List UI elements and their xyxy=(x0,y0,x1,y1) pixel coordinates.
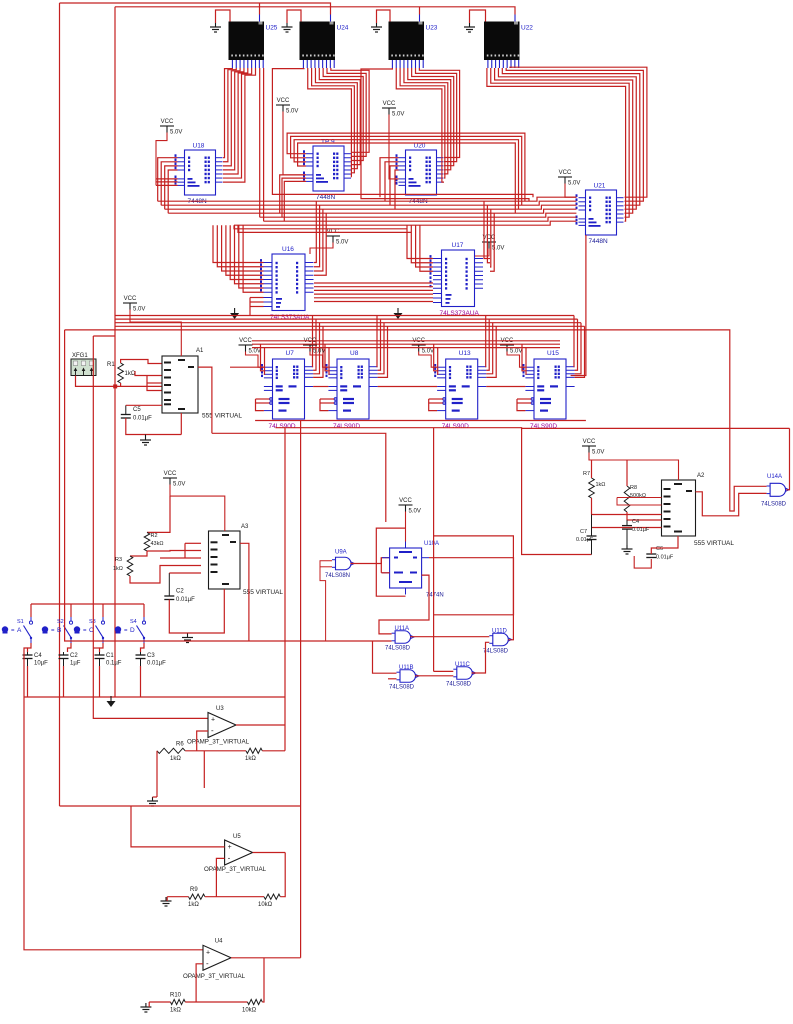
wire bundle display U24 segments to U19 outputs xyxy=(308,68,369,177)
svg-text:5.0V: 5.0V xyxy=(313,349,325,355)
svg-text:R10: R10 xyxy=(170,993,182,999)
svg-text:7448N: 7448N xyxy=(316,194,335,201)
op-amp U3 xyxy=(187,706,250,746)
svg-text:R1: R1 xyxy=(107,362,115,368)
wire R1 top to A1 xyxy=(121,360,162,364)
wire VCC loop to U10A clear pin xyxy=(376,528,405,596)
decade counter U15 xyxy=(523,350,575,430)
resistor R4 feedback of U3 xyxy=(245,748,262,762)
power VCC for U15 xyxy=(500,338,525,367)
ground for display U24 xyxy=(282,10,302,32)
wire display U24 pin A frame wire xyxy=(272,68,533,197)
svg-text:-: - xyxy=(206,959,209,968)
svg-text:43kΩ: 43kΩ xyxy=(151,541,164,547)
wire counter cascade lines xyxy=(230,367,525,386)
BCD decoder U21 xyxy=(576,183,624,246)
svg-text:U24: U24 xyxy=(337,25,349,32)
svg-text:U25: U25 xyxy=(266,25,278,32)
wire U5 minus input xyxy=(216,858,224,896)
svg-text:U22: U22 xyxy=(521,25,533,32)
svg-text:U18: U18 xyxy=(193,143,205,150)
svg-text:S3: S3 xyxy=(89,619,96,625)
svg-text:A1: A1 xyxy=(196,348,204,354)
ground for display U23 xyxy=(371,10,390,32)
wire U11B output to U11C input xyxy=(415,675,453,677)
wire display U23 pin A frame wire xyxy=(361,68,529,201)
svg-text:VCC: VCC xyxy=(583,439,596,445)
svg-text:S4: S4 xyxy=(130,619,137,625)
svg-text:A: A xyxy=(17,627,22,634)
wire bus of decoder input lines xyxy=(158,197,577,225)
wire U3 feedback loop xyxy=(236,725,285,751)
svg-text:XFG1: XFG1 xyxy=(72,353,88,359)
AND gate U11A xyxy=(385,626,414,652)
power VCC for U19 xyxy=(276,98,306,175)
svg-text:C6: C6 xyxy=(656,546,663,552)
wire A3 output to gates xyxy=(240,543,249,641)
resistor R7 1k xyxy=(583,460,605,515)
wire top net branch to U25 display top pin xyxy=(259,3,261,15)
wire U14A output up to bus xyxy=(786,428,789,489)
wire counter reset rows xyxy=(256,399,532,411)
wire U17 outputs rise to bus1 xyxy=(484,201,494,271)
svg-text:5.0V: 5.0V xyxy=(286,109,298,115)
switch S1 key A xyxy=(2,604,33,652)
wire left long vertical from top net xyxy=(59,3,61,806)
octal latch U17 xyxy=(430,242,484,317)
wire U16 lower outputs to U17 inputs xyxy=(314,283,433,304)
power VCC for U16 xyxy=(310,229,348,254)
svg-text:5.0V: 5.0V xyxy=(592,450,604,456)
555 timer A3 xyxy=(209,524,284,596)
wire U16 upper outputs rise to bus1 xyxy=(314,201,326,275)
wire bus counter input feed lines xyxy=(252,341,560,375)
svg-text:74LS90D: 74LS90D xyxy=(269,423,296,430)
ground under A3 xyxy=(182,634,193,643)
svg-text:1kΩ: 1kΩ xyxy=(170,756,181,762)
svg-text:OPAMP_3T_VIRTUAL: OPAMP_3T_VIRTUAL xyxy=(204,866,267,873)
svg-text:7448N: 7448N xyxy=(589,238,608,245)
svg-text:74LS08N: 74LS08N xyxy=(325,573,350,579)
svg-text:1kΩ: 1kΩ xyxy=(188,902,199,908)
power VCC for U7 xyxy=(239,338,264,367)
svg-text:U11B: U11B xyxy=(399,665,414,671)
svg-text:U5: U5 xyxy=(233,834,241,840)
wire bus line upper xyxy=(255,420,586,422)
svg-text:555 VIRTUAL: 555 VIRTUAL xyxy=(202,413,242,420)
BCD decoder U18 xyxy=(175,143,223,206)
svg-text:U15: U15 xyxy=(547,350,559,357)
wire second left long vertical from top net xyxy=(114,7,116,697)
555 timer A2 xyxy=(662,473,735,547)
svg-text:U3: U3 xyxy=(216,706,224,712)
decade counter U13 xyxy=(434,350,486,430)
wire cross net down to A2 area xyxy=(522,428,592,554)
AND gate U9A xyxy=(325,550,354,580)
svg-text:1kΩ: 1kΩ xyxy=(125,371,136,377)
wire display U25 extra pins down to bus xyxy=(260,68,264,221)
svg-text:A2: A2 xyxy=(697,473,705,479)
wire U15 outputs rise to bus xyxy=(574,316,585,378)
svg-text:U14A: U14A xyxy=(767,474,782,480)
wire stair bus1 down to U16 inputs xyxy=(213,225,264,292)
wire U11D output up to cross net xyxy=(434,536,514,640)
wire U16 lower control pins xyxy=(250,298,264,316)
wire R10 node row xyxy=(149,1001,247,1003)
capacitor C1 0.1µF xyxy=(95,652,122,697)
svg-text:VCC: VCC xyxy=(277,98,290,104)
svg-text:1kΩ: 1kΩ xyxy=(245,756,256,762)
svg-text:C2: C2 xyxy=(70,653,78,659)
svg-text:S2: S2 xyxy=(57,619,64,625)
svg-text:C2: C2 xyxy=(176,589,184,595)
wire R1 bottom xyxy=(120,383,122,386)
svg-text:5.0V: 5.0V xyxy=(336,240,348,246)
svg-text:5.0V: 5.0V xyxy=(568,181,580,187)
svg-text:VCC: VCC xyxy=(164,471,177,477)
wire capacitors bottom bus xyxy=(24,696,285,698)
svg-text:C4: C4 xyxy=(34,653,42,659)
capacitor C2 0.01uF xyxy=(164,573,201,603)
wire U13 outputs rise to bus xyxy=(486,316,497,378)
wire cross lines below bus to U17 area xyxy=(234,225,411,232)
svg-text:-: - xyxy=(228,854,231,863)
wire U11B feed from A3 line xyxy=(373,641,397,679)
switch S2 key B xyxy=(42,604,73,652)
svg-text:U11A: U11A xyxy=(395,626,410,632)
wire U3 minus input xyxy=(197,731,208,751)
svg-text:C4: C4 xyxy=(632,519,639,525)
svg-text:R3: R3 xyxy=(115,557,122,563)
svg-text:U13: U13 xyxy=(459,350,471,357)
svg-text:74LS08D: 74LS08D xyxy=(385,646,411,652)
svg-text:5.0V: 5.0V xyxy=(422,349,434,355)
power VCC for A2 xyxy=(582,439,679,480)
wire U20 input drops to bus xyxy=(380,158,399,210)
power VCC for U17 xyxy=(475,235,504,256)
svg-text:U11D: U11D xyxy=(492,629,508,635)
octal latch U16 xyxy=(260,246,314,321)
wire U10A inverted Q output to U11A xyxy=(379,575,429,634)
wire U5 plus input feed xyxy=(60,806,301,847)
ground under U17 xyxy=(394,308,403,319)
capacitor C4 10µF xyxy=(23,652,49,697)
wire branch to U23 display top pin xyxy=(419,7,421,15)
svg-text:VCC: VCC xyxy=(239,338,252,344)
wire U19 lower pins drop to bus xyxy=(280,175,306,221)
svg-text:C3: C3 xyxy=(147,653,155,659)
power VCC for A1 xyxy=(123,296,181,356)
svg-text:OPAMP_3T_VIRTUAL: OPAMP_3T_VIRTUAL xyxy=(183,973,246,980)
BCD decoder U20 xyxy=(396,143,444,206)
ground for R10 xyxy=(140,1002,151,1012)
wire U18 LT/RBI/BI pins to VCC xyxy=(156,179,178,186)
power VCC for A3 xyxy=(163,471,225,531)
svg-text:74LS08D: 74LS08D xyxy=(761,502,787,508)
svg-text:5.0V: 5.0V xyxy=(170,130,182,136)
wire U11C output to U11D input xyxy=(472,642,490,673)
wire U7 outputs rise to bus xyxy=(313,316,324,378)
resistor R8 500k xyxy=(624,460,646,520)
svg-text:VCC: VCC xyxy=(124,296,137,302)
wire U5 feedback loop xyxy=(253,853,286,897)
power VCC for U8 xyxy=(303,338,328,367)
svg-text:R7: R7 xyxy=(583,471,590,477)
svg-text:0.01µF: 0.01µF xyxy=(147,661,166,667)
svg-text:555 VIRTUAL: 555 VIRTUAL xyxy=(694,540,734,547)
wire U9A output split to clock xyxy=(381,558,389,573)
ground for capacitor bus xyxy=(107,696,116,707)
svg-text:-: - xyxy=(211,726,214,735)
svg-text:5.0V: 5.0V xyxy=(392,112,404,118)
wire U11A output to U11D input xyxy=(410,636,489,638)
wire U18 input drops to bus xyxy=(158,158,178,214)
AND gate U11C xyxy=(446,662,476,688)
svg-text:VCC: VCC xyxy=(383,101,396,107)
wire U9A inputs from divider line xyxy=(320,561,332,641)
svg-text:1kΩ: 1kΩ xyxy=(596,482,606,488)
svg-text:0.01µF: 0.01µF xyxy=(176,597,195,603)
capacitor C4b 0.01uF xyxy=(622,519,650,548)
555 timer A1 xyxy=(162,348,242,420)
svg-text:R9: R9 xyxy=(190,887,198,893)
wire C5 bottom loop to ground xyxy=(126,413,182,435)
switch S4 key D xyxy=(115,604,146,652)
svg-text:VCC: VCC xyxy=(559,170,572,176)
wire U21 down to counter U15 xyxy=(571,235,586,376)
resistor R2 xyxy=(144,532,163,551)
wire R2 to R3 xyxy=(130,551,147,556)
svg-text:U7: U7 xyxy=(286,350,295,357)
svg-text:+: + xyxy=(228,844,232,851)
svg-text:10kΩ: 10kΩ xyxy=(242,1008,257,1014)
svg-text:500kΩ: 500kΩ xyxy=(630,493,646,499)
wire S1 branch to U4 input xyxy=(24,648,203,950)
resistor R5 feedback of U5 xyxy=(258,894,280,908)
7-segment display U25 xyxy=(229,15,278,69)
decade counter U7 xyxy=(261,350,313,430)
wire XFG1 output to A1 xyxy=(76,376,163,389)
wire vertical net through gate area xyxy=(433,428,435,672)
svg-text:=: = xyxy=(124,628,128,634)
svg-text:1kΩ: 1kΩ xyxy=(170,1008,181,1014)
svg-text:1µF: 1µF xyxy=(70,661,81,667)
svg-text:U8: U8 xyxy=(350,350,359,357)
wire U8 outputs rise to bus xyxy=(377,316,388,378)
svg-text:0.01µF: 0.01µF xyxy=(133,416,152,422)
7-segment display U23 xyxy=(389,15,438,69)
wire R6 left to ground xyxy=(156,751,158,797)
wire bus3 line down the left side to gates xyxy=(65,330,392,641)
power VCC for U18 xyxy=(156,119,182,185)
wire bundle display U25 segments to U18 outputs xyxy=(223,68,256,182)
wire top net to U24 display top pin xyxy=(60,3,331,15)
svg-text:=: = xyxy=(51,628,55,634)
svg-text:5.0V: 5.0V xyxy=(510,349,522,355)
wire bundle display U23 segments to U20 outputs xyxy=(396,68,459,182)
svg-text:R6: R6 xyxy=(176,742,184,748)
wire R6 node xyxy=(185,750,246,752)
wire A1 output line xyxy=(212,433,386,522)
power VCC for U10A xyxy=(399,498,421,542)
svg-text:U17: U17 xyxy=(452,242,464,249)
capacitor C2 1µF xyxy=(59,652,81,697)
svg-text:+: + xyxy=(211,717,215,724)
wire bus line middle with jog xyxy=(275,427,789,430)
resistor R11 feedback of U4 xyxy=(242,999,262,1013)
ground under A1 xyxy=(140,435,151,446)
svg-text:U16: U16 xyxy=(282,246,294,253)
wire second top net to U22 display top pin xyxy=(115,7,515,15)
svg-text:C7: C7 xyxy=(580,529,587,535)
svg-text:C5: C5 xyxy=(133,407,141,413)
capacitor C3 0.01µF xyxy=(136,652,167,697)
wire U4 feedback loop xyxy=(231,958,301,1002)
wire stair bus1 down to U17 upper inputs xyxy=(407,225,433,271)
wire A1 output down to bus xyxy=(198,367,212,433)
svg-text:U23: U23 xyxy=(426,25,438,32)
wire U10A Q output to gate U11C xyxy=(429,558,514,672)
BCD decoder U19 xyxy=(303,139,351,202)
ground for display U25 xyxy=(210,10,230,32)
svg-text:+: + xyxy=(206,949,210,956)
power VCC for U13 xyxy=(412,338,437,367)
AND gate U11B xyxy=(389,665,419,691)
svg-text:B: B xyxy=(57,627,61,634)
decade counter U8 xyxy=(326,350,378,430)
7-segment display U22 xyxy=(484,15,533,69)
wire long line latch area to gate U14A input xyxy=(65,330,767,511)
svg-text:D: D xyxy=(130,627,135,634)
svg-text:U21: U21 xyxy=(594,183,606,190)
capacitor C5 0.01uF xyxy=(121,405,162,421)
svg-text:1kΩ: 1kΩ xyxy=(113,566,123,572)
resistor R1 1k xyxy=(107,362,136,383)
wire A2 left pin feeds xyxy=(592,498,662,528)
svg-text:S1: S1 xyxy=(17,619,24,625)
wire C2 bottom to ground loop xyxy=(169,589,224,633)
svg-text:10µF: 10µF xyxy=(34,661,48,667)
wire long vertical right of opamps xyxy=(300,421,302,958)
svg-text:=: = xyxy=(83,628,87,634)
resistor R6 1k xyxy=(157,742,185,763)
svg-text:R8: R8 xyxy=(630,485,637,491)
wire U3 minus dead end xyxy=(203,751,205,788)
resistor R9 1k xyxy=(188,887,205,908)
ground under U16 xyxy=(230,308,239,319)
wire vertical from bus down to U3 output xyxy=(284,428,286,751)
svg-text:U11C: U11C xyxy=(455,662,471,668)
wire R3 bottom to A3 pins xyxy=(130,543,201,583)
wire A2 output to gate U14A xyxy=(696,492,767,516)
AND gate U14A xyxy=(761,474,789,508)
svg-text:5.0V: 5.0V xyxy=(173,482,185,488)
power VCC for U21 xyxy=(558,170,580,197)
capacitor C6 0.01uF xyxy=(634,536,678,568)
function generator XFG1 xyxy=(71,353,96,376)
op-amp U5 xyxy=(204,834,267,873)
power VCC for U20 xyxy=(382,101,404,179)
svg-text:VCC: VCC xyxy=(399,498,412,504)
svg-text:U4: U4 xyxy=(215,939,223,945)
svg-text:74LS08D: 74LS08D xyxy=(483,649,509,655)
ground for display U22 xyxy=(464,10,486,32)
wire R9 node row xyxy=(167,896,264,898)
switch S3 key C xyxy=(74,604,105,652)
svg-text:=: = xyxy=(11,628,15,634)
D flip-flop U10A xyxy=(382,541,444,599)
svg-text:C1: C1 xyxy=(106,653,114,659)
wire U19 inputs overhead lines to bus xyxy=(287,133,525,213)
svg-text:5.0V: 5.0V xyxy=(133,307,145,313)
svg-text:R2: R2 xyxy=(151,533,158,539)
svg-text:0.01µF: 0.01µF xyxy=(632,527,650,533)
ground for R6 xyxy=(147,797,158,806)
ground for R9 xyxy=(161,897,172,906)
wire U4 minus input xyxy=(196,964,203,1002)
svg-text:0.1µF: 0.1µF xyxy=(106,661,122,667)
resistor R3 xyxy=(113,556,133,576)
svg-text:5.0V: 5.0V xyxy=(409,509,421,515)
capacitor C7 0.01uF xyxy=(576,515,597,555)
svg-text:0.01µF: 0.01µF xyxy=(656,555,674,561)
wire S3 branch to U3 input xyxy=(93,336,208,718)
wire VCC branch to R2 xyxy=(147,496,170,532)
svg-text:5.0V: 5.0V xyxy=(249,349,261,355)
svg-text:VCC: VCC xyxy=(161,119,174,125)
svg-text:74LS08D: 74LS08D xyxy=(389,685,415,691)
wire bundle display U22 segments to U21 outputs xyxy=(487,67,647,221)
ground in A2 area xyxy=(622,545,633,554)
AND gate U11D xyxy=(483,629,512,655)
7-segment display U24 xyxy=(300,15,349,69)
svg-text:U10A: U10A xyxy=(424,541,439,547)
resistor R10 1k xyxy=(170,993,185,1014)
op-amp U4 xyxy=(183,939,246,980)
wire switch top bus xyxy=(31,603,144,605)
wire A1 pin links xyxy=(135,371,162,391)
svg-text:74LS08D: 74LS08D xyxy=(446,682,472,688)
svg-text:U9A: U9A xyxy=(335,550,347,556)
svg-text:74LS90D: 74LS90D xyxy=(442,423,469,430)
wire bus counters outputs to latches xyxy=(93,316,584,337)
svg-text:10kΩ: 10kΩ xyxy=(258,902,273,908)
svg-text:74LS90D: 74LS90D xyxy=(333,423,360,430)
svg-text:A3: A3 xyxy=(241,524,249,530)
wire U9A output to U10A D input xyxy=(351,558,390,564)
